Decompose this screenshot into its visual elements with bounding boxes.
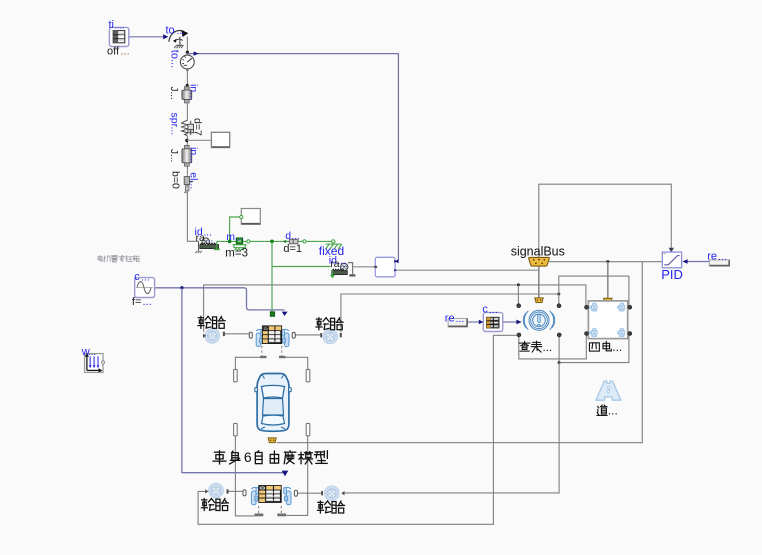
wire inertia1 to springDamper bbox=[186, 104, 188, 121]
label road bbox=[597, 404, 618, 418]
svg-text:ra: ra bbox=[196, 232, 205, 244]
fixed bbox=[326, 240, 342, 250]
tire front-left bbox=[205, 329, 220, 344]
svg-text:J...: J... bbox=[168, 87, 179, 100]
svg-text:in...: in... bbox=[188, 84, 200, 101]
svg-text:...: ... bbox=[456, 313, 465, 325]
green flange square on front axle bbox=[270, 312, 274, 317]
inertia J2 (in) bbox=[182, 145, 192, 166]
wire front mount right bbox=[285, 357, 308, 369]
svg-text:in...: in... bbox=[188, 147, 200, 164]
wire sine to rear axle bbox=[182, 288, 285, 473]
mass m=3 bbox=[233, 238, 250, 250]
label motor demand torque (gray) bbox=[98, 255, 140, 262]
wire car body bus loop bbox=[277, 262, 643, 443]
svg-text:off: off bbox=[107, 46, 120, 58]
lookup motor corner connectors bbox=[517, 304, 521, 308]
wire lookup BR / fourmotor BR / rear-right tire bbox=[558, 337, 560, 363]
svg-text:ti: ti bbox=[109, 19, 115, 31]
svg-text:...: ... bbox=[89, 347, 97, 357]
wire signalBus down to lookup motor bus bbox=[538, 266, 540, 298]
wire front mount left bbox=[235, 357, 260, 369]
white box2 (annotation) bbox=[241, 209, 260, 225]
junction sensor-inertia1 bbox=[186, 84, 189, 87]
feedback/force box bbox=[374, 257, 397, 277]
label fourmotor bbox=[589, 340, 622, 354]
wire sensor to inertia1 bbox=[186, 69, 188, 90]
svg-text:...: ... bbox=[489, 304, 498, 316]
label lookup motor bbox=[519, 340, 552, 354]
dashed legs rear axle bbox=[258, 506, 260, 513]
elastoBacklash (el, b=0) bbox=[184, 173, 193, 194]
car body mounts bbox=[234, 369, 238, 381]
white box (annotation) bbox=[211, 132, 229, 147]
svg-text:...: ... bbox=[121, 46, 130, 58]
svg-text:...: ... bbox=[235, 232, 243, 243]
junction bus-PID bbox=[606, 260, 609, 263]
svg-text:...: ... bbox=[177, 26, 185, 37]
svg-text:...: ... bbox=[292, 231, 300, 242]
tire rear-right bbox=[325, 486, 340, 501]
wire mass to white box2 bbox=[230, 217, 240, 241]
junction torque-sensor bbox=[186, 51, 189, 54]
label car body 6dof bbox=[213, 449, 327, 465]
PID block bbox=[662, 252, 681, 268]
wire green to ra wheel and axle bbox=[272, 241, 331, 266]
rear axle block bbox=[251, 487, 258, 504]
front axle block bbox=[256, 329, 263, 346]
fourmotor side connectors bbox=[585, 305, 589, 309]
world/gravity block bbox=[85, 353, 105, 372]
wire c to lookup motor bbox=[503, 321, 517, 323]
road block (dao) bbox=[596, 381, 621, 400]
wire signalBus to PID left bbox=[549, 261, 662, 263]
block timeTable1 (ti) bbox=[109, 27, 128, 46]
svg-text:...: ... bbox=[141, 272, 150, 284]
svg-text:m: m bbox=[226, 231, 235, 243]
svg-text:b=0: b=0 bbox=[170, 171, 182, 189]
signalBus connector bbox=[529, 257, 550, 266]
svg-text:to: to bbox=[166, 25, 175, 37]
leg bars rear bbox=[255, 514, 264, 517]
wire sensor signal to feedback box bbox=[187, 54, 398, 261]
dashed legs front axle bbox=[261, 346, 263, 356]
wire springDamper to inertia2 bbox=[186, 136, 188, 149]
wire timeTable to torque bbox=[129, 36, 164, 38]
wire green translational main bbox=[217, 240, 290, 242]
svg-text:re: re bbox=[707, 251, 717, 263]
realExpression re2 (PID setpoint) bbox=[709, 260, 729, 266]
wire inertia2 to elastoBacklash bbox=[186, 163, 188, 173]
wire junction to white box bbox=[187, 139, 212, 141]
fourmotor block bbox=[588, 301, 627, 339]
svg-text:...: ... bbox=[718, 251, 727, 263]
lookup motor block (brake icon) bbox=[523, 310, 555, 330]
wire rear-left tire to rear axle bbox=[228, 490, 243, 492]
label tire FR bbox=[316, 318, 343, 330]
tire rear-left bbox=[209, 483, 224, 498]
svg-text:spr...: spr... bbox=[169, 113, 181, 136]
realExpression re1 bbox=[448, 318, 467, 326]
junction FR net bbox=[557, 293, 560, 296]
svg-text:c: c bbox=[134, 271, 140, 283]
wire signalBus loop to PID top bbox=[539, 184, 672, 257]
svg-text:...: ... bbox=[608, 404, 618, 418]
label tire FL bbox=[198, 316, 225, 328]
svg-text:...: ... bbox=[340, 259, 348, 270]
damper d=1 bbox=[284, 239, 306, 244]
wire rear mount left bbox=[235, 435, 254, 516]
wire elasto to idealGear bbox=[187, 192, 198, 242]
svg-text:....: .... bbox=[115, 21, 125, 31]
svg-text:signalBus: signalBus bbox=[511, 245, 565, 259]
torque source (to) bbox=[169, 30, 189, 48]
car body icon bbox=[255, 374, 291, 432]
idealGearR2T 1 (id/ra) bbox=[195, 238, 219, 253]
svg-text:...: ... bbox=[205, 234, 213, 245]
label tire RR bbox=[318, 501, 345, 513]
wire front-left tire net bbox=[204, 285, 586, 332]
svg-text:...: ... bbox=[143, 296, 152, 308]
junction green box2 bbox=[228, 240, 232, 244]
tire front-right bbox=[323, 329, 338, 344]
wire re1 to lookup table c bbox=[468, 321, 480, 323]
torque sensor (to...) bbox=[180, 55, 194, 72]
svg-text:6: 6 bbox=[244, 449, 252, 465]
svg-text:to...: to... bbox=[169, 50, 181, 68]
wire lookup BL to fourmotor BL bbox=[519, 335, 587, 359]
bus connector under car bbox=[268, 438, 276, 443]
bus connector on lookup block bbox=[535, 298, 543, 303]
wire front axle to front-right tire bbox=[295, 334, 321, 336]
svg-text:el...: el... bbox=[188, 172, 200, 189]
svg-text:d=1: d=1 bbox=[283, 243, 302, 255]
svg-text:re: re bbox=[445, 312, 455, 324]
wire sine net bbox=[155, 287, 182, 289]
svg-text:...: ... bbox=[612, 340, 622, 354]
inertia J1 (in) bbox=[182, 87, 192, 103]
svg-text:c: c bbox=[482, 303, 488, 315]
bus connector on fourmotor block bbox=[604, 298, 612, 303]
junction BR net bbox=[558, 361, 561, 364]
idealRollingWheel 2 (id/ra) bbox=[330, 263, 356, 279]
wire torque to sensor bbox=[186, 37, 188, 56]
junction green main bbox=[270, 240, 274, 244]
wire rear axle to rear-right tire bbox=[297, 492, 321, 494]
junction spring-box bbox=[185, 139, 188, 142]
svg-text:...: ... bbox=[543, 340, 553, 354]
wire front-left tire to front axle bbox=[225, 333, 250, 335]
junction FL net bbox=[517, 283, 520, 286]
svg-text:f=: f= bbox=[132, 296, 141, 308]
junction sine bbox=[180, 286, 183, 289]
svg-text:ra: ra bbox=[330, 258, 339, 270]
wire junction down to fourmotor bus bbox=[607, 262, 609, 299]
wire re2 to PID bbox=[687, 261, 709, 263]
svg-text:PID: PID bbox=[661, 267, 683, 282]
svg-text:m=3: m=3 bbox=[225, 248, 248, 260]
wire rear mount right bbox=[286, 435, 307, 515]
svg-text:d=7: d=7 bbox=[192, 118, 204, 136]
leg bars front bbox=[260, 356, 266, 358]
svg-text:d: d bbox=[285, 230, 291, 242]
combiTable c bbox=[483, 313, 502, 332]
svg-text:J...: J... bbox=[168, 149, 179, 162]
wire rear-left tire loop to lookup BL bbox=[198, 335, 516, 524]
wire feedback box to signalBus bbox=[395, 269, 539, 271]
sine source f bbox=[135, 278, 155, 298]
springDamper (spr, d=7) bbox=[182, 121, 194, 136]
wire front-right tire net bbox=[341, 294, 559, 332]
label tire RL bbox=[201, 499, 228, 511]
wire ra2 to feedback box bbox=[353, 266, 375, 268]
